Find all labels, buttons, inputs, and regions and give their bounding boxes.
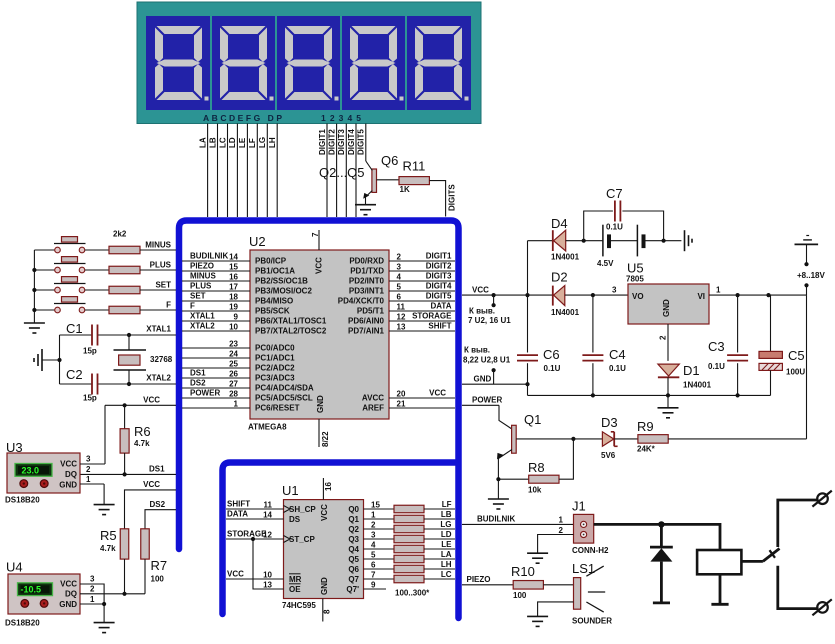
svg-text:10k: 10k — [528, 486, 542, 495]
svg-text:GND: GND — [59, 600, 77, 609]
wire button to resistor (F) — [85, 309, 109, 311]
svg-text:PLUS: PLUS — [150, 261, 172, 270]
svg-text:13: 13 — [397, 323, 406, 332]
U2 pin 14 (PB0/ICP) wire, net BUDILNIK — [182, 260, 250, 262]
svg-text:GND: GND — [662, 299, 671, 317]
svg-text:U5: U5 — [627, 261, 644, 276]
U2 pin 6 (PD4/XCK/T0) wire, net DIGIT5 — [389, 300, 455, 302]
svg-text:2: 2 — [397, 253, 402, 262]
svg-text:PIEZO: PIEZO — [190, 262, 214, 271]
transistor Q1 body bar — [512, 425, 517, 453]
wire segment net LD from display to bus — [236, 124, 238, 218]
U1 pin 15 (Q0) wire to resistor, net LF — [364, 508, 395, 510]
wire net POWER from bus — [462, 404, 499, 406]
resistor (array 100..300) for LG — [394, 525, 424, 533]
svg-text:VCC: VCC — [429, 389, 446, 398]
svg-text:DATA: DATA — [227, 510, 248, 519]
U4 pin 1 wire (GND) — [80, 603, 104, 605]
svg-text:0.1U: 0.1U — [708, 362, 725, 371]
wire net DS2 (R7 top) — [145, 510, 176, 529]
svg-text:PC4/ADC4/SDA: PC4/ADC4/SDA — [255, 384, 314, 393]
resistor 2k2 (SET row) — [109, 286, 140, 294]
wire R9 to +8..18V column — [668, 438, 806, 440]
resistor 2k2 (F row) — [109, 306, 140, 314]
display digit separator — [275, 16, 277, 110]
wire button to resistor (MINUS) — [85, 249, 109, 251]
U4 pin 3 wire (VCC, parasite) — [80, 584, 104, 604]
U3 knob 1 — [20, 480, 28, 488]
U5 pin 2 wire (GND) down to D1 — [667, 324, 669, 361]
U2 pin 12 (PD6/AIN0) wire, net STORAGE — [389, 320, 455, 322]
svg-text:DIGIT3: DIGIT3 — [337, 129, 346, 155]
svg-text:Q3: Q3 — [348, 535, 359, 544]
svg-text:1: 1 — [559, 516, 564, 525]
svg-text:DIGIT1: DIGIT1 — [318, 129, 327, 155]
svg-text:DIGIT2: DIGIT2 — [426, 262, 452, 271]
svg-text:SET: SET — [190, 292, 206, 301]
wire segment net LE from display to bus — [246, 124, 248, 218]
svg-text:BUDILNIK: BUDILNIK — [190, 252, 228, 261]
7-segment display inner area — [146, 16, 471, 110]
svg-text:SHIFT: SHIFT — [227, 500, 250, 509]
tap dot to K viv. 8,22 label — [492, 368, 496, 372]
svg-text:VCC: VCC — [315, 257, 324, 274]
svg-text:9: 9 — [234, 313, 239, 322]
svg-text:24: 24 — [229, 350, 238, 359]
svg-text:5: 5 — [371, 551, 376, 560]
wire to D4 — [528, 240, 553, 242]
wire digit net DIGIT3 from display to bus — [345, 124, 347, 218]
svg-text:PB7/XTAL2/TOSC2: PB7/XTAL2/TOSC2 — [255, 327, 327, 336]
bus (thick blue) around U2 — [179, 221, 459, 619]
svg-text:0.1U: 0.1U — [606, 223, 623, 232]
wire XTAL1 net — [60, 334, 93, 336]
svg-text:DIGITS: DIGITS — [447, 184, 456, 211]
svg-text:R7: R7 — [151, 558, 168, 573]
svg-text:DS2: DS2 — [190, 379, 206, 388]
push button for net MINUS — [34, 249, 54, 251]
svg-text:15: 15 — [371, 501, 380, 510]
svg-text:100..300*: 100..300* — [395, 589, 430, 598]
svg-text:Q2: Q2 — [348, 525, 359, 534]
svg-text:LH: LH — [441, 560, 452, 569]
U2 pin 26 (PC3/ADC3) wire, net DS1 — [182, 377, 250, 379]
ground below U3 — [94, 504, 115, 506]
svg-text:GND: GND — [320, 577, 329, 595]
svg-text:VO: VO — [632, 292, 644, 301]
svg-text:D2: D2 — [551, 270, 568, 285]
sounder LS1 — [574, 578, 581, 610]
svg-text:GND: GND — [59, 481, 77, 490]
svg-text:F: F — [166, 301, 171, 310]
svg-text:8: 8 — [323, 609, 332, 614]
wire net PIEZO from bus — [462, 584, 513, 586]
svg-text:9: 9 — [371, 581, 376, 590]
svg-text:DS2: DS2 — [150, 500, 166, 509]
svg-text:LC: LC — [441, 570, 452, 579]
U2 pin 11 (PD5/T1) wire, net DATA — [389, 310, 455, 312]
svg-text:LS1: LS1 — [572, 561, 595, 576]
svg-text:VCC: VCC — [143, 396, 160, 405]
svg-text:74HC595: 74HC595 — [282, 601, 316, 610]
svg-text:18: 18 — [229, 293, 238, 302]
svg-text:C6: C6 — [543, 347, 560, 362]
U2 pin 25 (PC2/ADC2) wire — [182, 367, 250, 369]
svg-text:PD4/XCK/T0: PD4/XCK/T0 — [338, 297, 385, 306]
svg-text:BUDILNIK: BUDILNIK — [477, 515, 515, 524]
svg-text:PD3/INT1: PD3/INT1 — [349, 287, 385, 296]
svg-text:3: 3 — [90, 575, 95, 584]
U1 pin 10 (MR) wire, net VCC — [226, 578, 284, 580]
svg-text:DS18B20: DS18B20 — [5, 619, 40, 628]
svg-text:7: 7 — [371, 571, 376, 580]
U2 pin 19 (PB5/SCK) wire, net F — [182, 310, 250, 312]
svg-text:C2: C2 — [66, 367, 83, 382]
display digit 1 (showing 8.) — [155, 26, 209, 101]
svg-text:12: 12 — [397, 313, 406, 322]
wire D2 to U5 VO — [565, 294, 628, 296]
svg-text:19: 19 — [229, 303, 238, 312]
svg-text:24K*: 24K* — [637, 445, 656, 454]
U3 knob 2 — [40, 480, 48, 488]
flyback diode (external, thick) — [660, 524, 663, 547]
U2 pin 13 (PD7/AIN1) wire, net SHIFT — [389, 330, 455, 332]
wire segment net LG from display to bus — [266, 124, 268, 218]
svg-text:LD: LD — [228, 137, 237, 148]
svg-text:2: 2 — [90, 585, 95, 594]
svg-text:15p: 15p — [83, 394, 97, 403]
switch contact (external) — [741, 560, 763, 563]
svg-text:0.1U: 0.1U — [609, 364, 626, 373]
svg-text:VCC: VCC — [320, 504, 329, 521]
svg-text:D4: D4 — [551, 216, 568, 231]
U2 pin 17 (PB3/MOSI/OC2) wire, net PLUS — [182, 290, 250, 292]
svg-text:SHIFT: SHIFT — [428, 322, 451, 331]
capacitor C3 — [737, 295, 739, 352]
ground below Q6 — [355, 204, 376, 206]
resistor R10 — [513, 581, 543, 590]
svg-text:6: 6 — [397, 293, 402, 302]
svg-text:7805: 7805 — [626, 275, 644, 284]
svg-text:LA: LA — [441, 550, 452, 559]
display digit separator — [405, 16, 407, 110]
svg-text:7 U2, 16 U1: 7 U2, 16 U1 — [468, 316, 511, 325]
wire battery to ground — [644, 240, 682, 242]
wire segment net LF from display to bus — [256, 124, 258, 218]
junction XTAL2 — [127, 382, 131, 386]
temperature sensor U3 DS18B20 body — [7, 453, 80, 493]
svg-text:PC3/ADC3: PC3/ADC3 — [255, 374, 295, 383]
wire XTAL2 net — [60, 383, 93, 385]
svg-text:DQ: DQ — [65, 590, 77, 599]
svg-text:POWER: POWER — [472, 396, 502, 405]
wire resistor to bus, net SET — [140, 289, 176, 291]
junction — [32, 268, 36, 272]
svg-text:2: 2 — [559, 526, 564, 535]
temperature sensor U4 DS18B20 body — [8, 574, 80, 614]
svg-text:DIGIT3: DIGIT3 — [426, 272, 452, 281]
J1 pin 2 wire to ground — [538, 535, 574, 554]
svg-text:13: 13 — [263, 581, 272, 590]
junction — [662, 239, 666, 243]
U1 pin 11 (SH_CP) wire, net SHIFT — [226, 508, 284, 510]
svg-text:PC0/ADC0: PC0/ADC0 — [255, 344, 295, 353]
ground below buttons — [33, 313, 35, 323]
ground below D1 — [667, 395, 669, 407]
svg-text:12: 12 — [263, 531, 272, 540]
U1 pin 9 (Q7') stub wire — [364, 588, 387, 590]
resistor R5 — [120, 529, 129, 559]
svg-text:23.0: 23.0 — [22, 465, 40, 475]
resistor (array 100..300) for LD — [394, 535, 424, 543]
svg-text:LG: LG — [440, 520, 451, 529]
junction — [57, 358, 61, 362]
ground (sideways) right of battery — [684, 230, 686, 251]
svg-text:2: 2 — [86, 465, 91, 474]
Q1 emitter wire with arrow — [498, 450, 512, 480]
svg-text:OE: OE — [289, 585, 301, 594]
display digit 5 (showing 8.) — [415, 26, 469, 101]
svg-text:4: 4 — [371, 541, 376, 550]
wire digit net DIGIT1 from display to bus — [326, 124, 328, 218]
capacitor C2 — [91, 374, 93, 395]
U2 pin 24 (PC1/ADC1) wire — [182, 357, 250, 359]
U2 pin 20 (AVCC) wire, net VCC — [389, 397, 455, 399]
svg-text:LA: LA — [198, 137, 207, 148]
diode D1 1N4001 (vertical) — [658, 364, 679, 376]
capacitor C5 100U (electrolytic) — [770, 295, 772, 351]
svg-text:DQ: DQ — [65, 470, 77, 479]
svg-text:7: 7 — [311, 232, 320, 237]
zener diode D3 5V6 — [602, 432, 613, 447]
svg-text:Q4: Q4 — [348, 545, 359, 554]
relay coil box (external) — [697, 550, 741, 574]
wire D4 branch vertical — [527, 241, 529, 295]
U1 pin 1 (Q1) wire to resistor, net LB — [364, 518, 395, 520]
svg-text:VCC: VCC — [60, 580, 77, 589]
junction (thick) — [658, 521, 664, 527]
svg-text:DIGIT5: DIGIT5 — [357, 129, 366, 155]
wire resistor to bus, net LF — [424, 508, 455, 510]
junction XTAL1 — [127, 333, 131, 337]
switch upper throw wire and terminal — [778, 500, 819, 547]
svg-text:F: F — [190, 302, 195, 311]
svg-text:1: 1 — [371, 511, 376, 520]
resistor R9 — [638, 435, 668, 444]
svg-text:15: 15 — [229, 263, 238, 272]
svg-text:MINUS: MINUS — [145, 241, 171, 250]
U2 VCC pin 7 wire (top) — [318, 230, 320, 250]
Q1 base wire — [516, 438, 573, 440]
U2 pin 23 (PC0/ADC0) wire — [182, 347, 250, 349]
junction — [32, 308, 36, 312]
svg-text:5V6: 5V6 — [601, 451, 616, 460]
svg-text:R5: R5 — [100, 528, 117, 543]
svg-text:PB3/MOSI/OC2: PB3/MOSI/OC2 — [255, 287, 312, 296]
svg-text:Q1: Q1 — [524, 412, 541, 427]
ground below J1 pin2 — [527, 552, 548, 554]
wire R11 to bus (net DIGITS) — [429, 181, 445, 217]
wire POWER down to Q1 collector — [499, 405, 512, 429]
U2 pin 3 (PD1/TXD) wire, net DIGIT2 — [389, 270, 455, 272]
svg-text:AREF: AREF — [362, 404, 384, 413]
svg-text:PD5/T1: PD5/T1 — [357, 307, 385, 316]
ground below Q1 emitter — [497, 479, 499, 499]
wire net DS1 — [80, 473, 176, 475]
wire digit net DIGIT4 from display to bus — [355, 124, 357, 218]
svg-text:R8: R8 — [528, 460, 545, 475]
U1 pin 7 (Q7) wire to resistor, net LC — [364, 578, 395, 580]
svg-text:LE: LE — [238, 137, 247, 148]
wire net BUDILNIK from bus — [462, 523, 574, 525]
svg-text:PIEZO: PIEZO — [467, 575, 491, 584]
svg-text:Q0: Q0 — [348, 505, 359, 514]
svg-text:SH_CP: SH_CP — [289, 505, 316, 514]
svg-text:PD0/RXD: PD0/RXD — [349, 257, 384, 266]
svg-text:Q7': Q7' — [346, 585, 359, 594]
wire resistor to bus, net LB — [424, 518, 455, 520]
wire STORAGE to OE pin 13 — [253, 539, 284, 589]
resistor 2k2 (PLUS row) — [109, 266, 140, 274]
bus (thick blue) around U1 — [223, 463, 456, 615]
U4 knob 2 — [40, 600, 48, 608]
svg-text:PB2/SS/OC1B: PB2/SS/OC1B — [255, 277, 308, 286]
svg-text:LB: LB — [441, 510, 452, 519]
wire button to resistor (SET) — [85, 289, 109, 291]
svg-text:27: 27 — [229, 380, 238, 389]
display digit separator — [210, 16, 212, 110]
svg-text:23: 23 — [229, 340, 238, 349]
svg-text:8,22 U2,8 U1: 8,22 U2,8 U1 — [463, 356, 511, 365]
svg-text:26: 26 — [229, 370, 238, 379]
U5 pin 1 wire (VI) — [709, 294, 738, 296]
resistor (array 100..300) for LF — [394, 505, 424, 513]
svg-text:D3: D3 — [601, 415, 618, 430]
svg-text:3: 3 — [371, 531, 376, 540]
U2 pin 18 (PB4/MISO) wire, net SET — [182, 300, 250, 302]
svg-text:+8..18V: +8..18V — [797, 271, 825, 280]
resistor R8 — [498, 478, 528, 480]
push button for net F — [34, 309, 54, 311]
IC U2 ATMEGA8 body — [250, 250, 389, 419]
svg-text:DIGIT1: DIGIT1 — [426, 252, 452, 261]
power input terminal +8..18V — [795, 243, 819, 245]
junction — [591, 393, 595, 397]
svg-text:LH: LH — [268, 137, 277, 148]
wire relay box to terminal bar — [719, 574, 722, 604]
transistor Q6 body bar — [372, 169, 377, 192]
svg-text:PLUS: PLUS — [190, 282, 212, 291]
wire +8..18V down to R9 — [806, 295, 808, 439]
svg-text:3: 3 — [86, 455, 91, 464]
U4 pin 2 wire (DQ) net DS2 — [80, 593, 145, 595]
wire segment net LA from display to bus — [207, 124, 209, 218]
svg-text:4.5V: 4.5V — [597, 259, 614, 268]
svg-text:C5: C5 — [788, 348, 805, 363]
svg-text:1N4001: 1N4001 — [683, 381, 712, 390]
svg-text:R11: R11 — [403, 159, 426, 174]
svg-text:XTAL1: XTAL1 — [146, 325, 171, 334]
wire resistor to bus, net MINUS — [140, 249, 176, 251]
wire base to D3 — [573, 438, 602, 440]
U4 LCD display showing -10.5 — [18, 583, 53, 596]
U1 pin 6 (Q6) wire to resistor, net LH — [364, 568, 395, 570]
svg-text:PC1/ADC1: PC1/ADC1 — [255, 354, 295, 363]
svg-text:PC2/ADC2: PC2/ADC2 — [255, 364, 295, 373]
svg-text:4.7k: 4.7k — [134, 439, 150, 448]
display digit 4 (showing 8.) — [350, 26, 404, 101]
svg-text:LF: LF — [442, 500, 452, 509]
svg-text:0.1U: 0.1U — [544, 364, 561, 373]
svg-text:SET: SET — [155, 281, 171, 290]
svg-text:15p: 15p — [83, 347, 97, 356]
left vertical wire C1-C2 — [59, 335, 61, 384]
junction — [102, 602, 106, 606]
wire resistor to bus, net F — [140, 309, 176, 311]
svg-text:DIGIT2: DIGIT2 — [327, 129, 336, 155]
wire resistor to bus, net LD — [424, 538, 455, 540]
U1 pin 3 (Q3) wire to resistor, net LD — [364, 538, 395, 540]
wire to ground (left) — [42, 359, 60, 361]
svg-text:LF: LF — [248, 138, 257, 148]
svg-text:STORAGE: STORAGE — [227, 530, 267, 539]
voltage regulator U5 7805 body — [628, 284, 709, 324]
Q6 emitter wire with arrow — [366, 191, 373, 205]
7-segment display DISP1 frame — [137, 2, 481, 124]
U2 pin 9 (PB6/XTAL1/TOSC1) wire, net XTAL1 — [182, 320, 250, 322]
U2 pin 10 (PB7/XTAL2/TOSC2) wire, net XTAL2 — [182, 330, 250, 332]
resistor (array 100..300) for LA — [394, 555, 424, 563]
svg-text:R10: R10 — [511, 564, 535, 579]
ground below LS1 — [527, 615, 548, 617]
svg-text:C4: C4 — [609, 347, 626, 362]
svg-text:ATMEGA8: ATMEGA8 — [248, 423, 287, 432]
svg-text:Q7: Q7 — [348, 575, 359, 584]
svg-text:8/22: 8/22 — [321, 431, 330, 447]
svg-text:U2: U2 — [249, 234, 266, 249]
svg-text:14: 14 — [229, 253, 238, 262]
resistor (array 100..300) for LE — [394, 545, 424, 553]
wire VI row to +8..18V corner — [738, 294, 807, 296]
junction — [666, 393, 670, 397]
U2 pin 5 (PD3/INT1) wire, net DIGIT4 — [389, 290, 455, 292]
U2 pin 2 (PD0/RXD) wire, net DIGIT1 — [389, 260, 455, 262]
junction — [571, 437, 575, 441]
wire resistor to bus, net LE — [424, 548, 455, 550]
svg-text:1N4001: 1N4001 — [551, 253, 580, 262]
IC U1 74HC595 body — [284, 500, 364, 599]
svg-text:GND: GND — [474, 375, 492, 384]
U1 pin 2 (Q2) wire to resistor, net LG — [364, 528, 395, 530]
svg-text:VCC: VCC — [227, 570, 244, 579]
svg-text:-10.5: -10.5 — [21, 585, 42, 595]
junction — [591, 293, 595, 297]
svg-text:DIGIT4: DIGIT4 — [347, 129, 356, 155]
svg-text:LG: LG — [258, 137, 267, 148]
svg-text:PD2/INT0: PD2/INT0 — [349, 277, 385, 286]
svg-text:1N4001: 1N4001 — [551, 308, 580, 317]
svg-text:GND: GND — [316, 395, 325, 413]
svg-text:MR: MR — [289, 575, 302, 584]
wire resistor to bus, net LA — [424, 558, 455, 560]
svg-text:1: 1 — [716, 286, 721, 295]
svg-text:C3: C3 — [708, 339, 725, 354]
svg-text:VCC: VCC — [60, 460, 77, 469]
wire segment net LH from display to bus — [276, 124, 278, 218]
wire resistor to bus, net PLUS — [140, 269, 176, 271]
svg-text:U3: U3 — [6, 440, 23, 455]
wire button common vertical — [33, 250, 35, 313]
